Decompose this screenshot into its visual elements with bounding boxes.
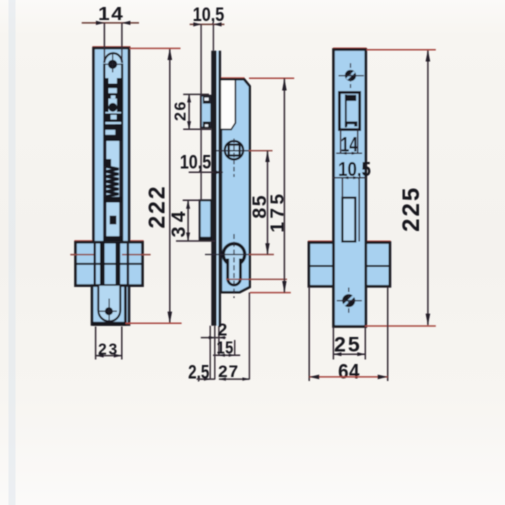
left view top screw hole <box>108 60 117 69</box>
dim 34 line <box>187 200 189 241</box>
latch mechanism C-piece bottom band <box>104 135 122 141</box>
svg-text:27: 27 <box>218 362 239 381</box>
dim 85 ext top red part <box>249 150 273 152</box>
dim 23 arrow left <box>96 354 104 358</box>
dim 14 ext right <box>121 23 123 63</box>
dim 25 ext left <box>332 327 334 360</box>
dim 10,5 ext right <box>212 24 214 50</box>
dim 27 arrow left <box>219 377 226 380</box>
case top edge over notch <box>221 79 250 86</box>
dim 15 arrow right <box>229 354 235 357</box>
dim 85 arrow top <box>265 151 269 162</box>
dim 85 ext top <box>216 150 249 152</box>
dim 10,5 long ext left <box>200 24 202 200</box>
dim 26 ext top <box>183 93 209 95</box>
channel lower band <box>104 236 122 242</box>
dim 14 ext left <box>103 23 105 63</box>
bottom screw crosshair horizontal <box>337 300 362 302</box>
latch mechanism crossbar 2 <box>104 93 122 98</box>
latch window bottom notch <box>347 124 354 128</box>
follower circle <box>225 141 243 159</box>
wing mid horizontal line <box>310 265 389 267</box>
dim 26 arrow bottom <box>187 121 191 129</box>
dim 23 arrow right <box>114 354 122 358</box>
dim 2 line <box>201 337 226 339</box>
svg-text:64: 64 <box>338 360 360 383</box>
dim 34 arrow top <box>186 200 190 209</box>
scan red fringe left block top <box>74 240 143 242</box>
dim 225 arrow top <box>426 50 431 62</box>
latch window bottom band <box>345 121 357 126</box>
cylinder bottom tangent line <box>226 278 287 280</box>
dim 14 left line <box>82 22 139 24</box>
channel rail right mid <box>119 141 121 242</box>
cylinder center line horizontal ext red <box>249 254 274 256</box>
dim 85 line <box>267 151 269 255</box>
latch mechanism C-piece top band <box>104 124 122 130</box>
top screw slot slash <box>347 72 355 79</box>
dim 26 line <box>188 94 190 129</box>
bottom ext case right <box>248 293 250 380</box>
channel rail left mid <box>104 141 106 242</box>
latch notch right edge <box>221 80 236 129</box>
dim 2,5 arrow <box>204 378 210 381</box>
left view top screw crosshair vertical <box>112 54 114 72</box>
dim 222 arrow top <box>168 48 173 60</box>
cylinder hole circle <box>223 244 244 265</box>
bottom screw crosshair horizontal <box>99 310 117 312</box>
dim 175 ext bottom <box>250 292 291 294</box>
scan red fringe left bar top <box>93 46 131 48</box>
dim 64 line <box>309 376 388 378</box>
left view top screw crosshair horizontal <box>104 63 122 65</box>
bottom screw slot slash <box>344 296 354 305</box>
deadbolt block bottom thick edge <box>200 237 212 241</box>
dim 27 line <box>219 378 250 380</box>
dim 25 arrow right <box>357 352 365 356</box>
dim 14 right ext right <box>357 130 359 154</box>
bottom thick edge <box>92 322 125 326</box>
cylinder center line vertical <box>233 234 235 298</box>
bar sides through block left <box>94 242 96 285</box>
left view inner channel right wall <box>121 64 123 243</box>
left view inner channel left wall <box>103 64 105 243</box>
scan streak left edge <box>9 0 16 505</box>
latch mechanism pivot disc <box>108 103 117 112</box>
left view faceplate bar body <box>94 48 130 325</box>
dim 222 ext top <box>130 47 181 49</box>
small latch stop left <box>104 159 111 166</box>
bottom ext faceplate left <box>209 326 211 380</box>
dim 25 arrow left <box>333 352 341 356</box>
right view faceplate bar <box>334 50 366 327</box>
dim 34 ext top <box>183 199 200 201</box>
dim 10,5 arrow left <box>193 22 201 26</box>
scan red fringe wings top <box>308 240 391 242</box>
top screw crosshair horizontal <box>339 75 364 77</box>
dim 26 ext bottom <box>183 128 211 130</box>
latch window inner left rail <box>345 95 347 128</box>
dim 85 arrow bottom <box>265 243 269 254</box>
cylinder keyhole stem <box>228 259 241 286</box>
svg-text:10,5: 10,5 <box>180 151 211 173</box>
bottom ext faceplate right <box>218 326 220 356</box>
faceplate side strip dark back <box>219 51 222 326</box>
bottom ext 15 right <box>234 340 236 355</box>
dim 225 line <box>427 50 429 326</box>
bottom screw hole <box>105 307 113 315</box>
dim 14 right ext left <box>340 130 342 154</box>
latch mechanism C-piece right connector <box>115 124 121 141</box>
latch bolt pin bottom notch <box>205 124 208 127</box>
dim 27 arrow right <box>242 377 249 380</box>
spring zigzag <box>106 167 119 197</box>
bottom screw crosshair vertical <box>348 288 350 315</box>
small slider square <box>110 216 117 225</box>
dim 26 arrow top <box>187 94 191 102</box>
faceplate side strip light core <box>217 51 219 326</box>
dim 10,5 right tick left <box>342 176 348 179</box>
dim 25 line <box>333 353 365 355</box>
right view wing plate <box>309 243 390 287</box>
dim 225 ext bottom <box>365 325 436 327</box>
dim 10,5 mid leader line <box>189 171 223 173</box>
bottom end outer <box>92 286 125 325</box>
dim 175 line <box>283 78 285 292</box>
cylinder center line horizontal <box>205 254 249 256</box>
bottom screw crosshair vertical <box>108 299 110 321</box>
svg-text:225: 225 <box>398 186 425 232</box>
left view inner channel fill <box>104 52 123 320</box>
latch mechanism yoke vertical left <box>104 78 109 112</box>
top screw head <box>345 70 356 81</box>
left view channel rounded top arc <box>104 53 122 63</box>
block mid horizontal line <box>77 263 142 265</box>
latch window frame <box>339 92 359 129</box>
latch mechanism crossbar 2 white notch <box>111 95 116 98</box>
dim 23 ext right <box>121 327 123 360</box>
dim 25 ext right <box>364 327 366 360</box>
top screw crosshair vertical <box>350 63 352 88</box>
dim 15 arrow left <box>219 354 225 357</box>
dim 222 line <box>169 48 171 323</box>
latch mechanism band notch white <box>111 115 117 120</box>
spring base band <box>104 197 122 203</box>
faceplate side strip dark front <box>211 51 216 326</box>
channel thick rail through block left <box>100 242 105 295</box>
svg-text:10,5: 10,5 <box>193 4 225 26</box>
latch window top band <box>347 95 357 101</box>
dim 64 arrow left <box>309 375 319 380</box>
bar sides through block right <box>127 242 129 285</box>
svg-text:175: 175 <box>268 190 289 232</box>
lock case body side view <box>221 79 250 292</box>
dim 10,5 right ext left <box>341 178 343 198</box>
latch bolt pin bottom <box>203 122 211 128</box>
block centerline dash right <box>122 254 151 256</box>
dim 15 line <box>213 354 240 356</box>
follower square spindle hole <box>229 145 240 156</box>
dim 175 arrow bottom <box>282 281 286 293</box>
latch bolt pin top notch <box>205 98 209 101</box>
latch mechanism yoke vertical right <box>117 78 122 112</box>
dim 222 ext bottom <box>126 322 182 324</box>
dim 10,5 right ext right <box>358 178 360 242</box>
dim 10,5 right line <box>333 177 366 179</box>
dim 2 arrow right <box>219 336 225 339</box>
dim 23 line <box>96 355 122 357</box>
dim 10,5 mid leader arrow <box>214 170 223 174</box>
scan red fringe right bar top <box>333 47 367 49</box>
deadbolt block <box>200 200 212 240</box>
dim 14 right tick left <box>341 152 347 155</box>
dim 222 arrow bottom <box>168 312 173 324</box>
channel thick rail through block right <box>116 242 121 295</box>
svg-text:2: 2 <box>218 320 228 340</box>
dim 2 arrow left <box>209 336 215 339</box>
dim 225 arrow bottom <box>426 314 431 326</box>
follower center line vertical <box>233 139 235 178</box>
scan red fringe case top <box>221 77 245 79</box>
svg-text:26: 26 <box>173 100 190 121</box>
dim 23 ext left <box>95 327 97 360</box>
latch mechanism crossbar 1 <box>104 84 122 89</box>
svg-text:14: 14 <box>98 4 124 25</box>
slot below 10,5 <box>342 198 355 242</box>
block centerline dash left <box>70 254 93 256</box>
svg-text:222: 222 <box>144 184 170 228</box>
dim 175 ext top <box>249 77 294 79</box>
dim 64 ext right <box>387 287 389 381</box>
dim 10,5 arrow right <box>214 22 222 26</box>
bottom ext faceplate mid <box>214 326 216 380</box>
bottom end inner U slot <box>98 286 120 322</box>
latch bolt block <box>201 96 211 128</box>
dim 14 right line <box>336 152 362 154</box>
dim 64 arrow right <box>378 375 388 380</box>
cylinder housing block left view <box>76 242 143 285</box>
dim 34 arrow bottom <box>186 233 190 242</box>
case bottom chamfer edge <box>221 287 250 292</box>
dim 64 ext left <box>308 287 310 381</box>
dim 14 left arrow right <box>122 21 130 25</box>
latch mechanism band with notch <box>104 113 122 122</box>
dim 175 arrow top <box>282 78 287 90</box>
dim 2,5 line <box>197 378 215 380</box>
latch notch cutout <box>221 80 235 129</box>
dim 10,5 top line <box>190 23 225 25</box>
dim 14 left arrow left <box>96 21 105 25</box>
dim 10,5 right tick right <box>353 176 359 179</box>
dim 34 ext bottom <box>176 240 215 242</box>
bottom screw head <box>342 294 355 307</box>
latch bolt pin top <box>203 97 211 104</box>
dim 225 ext top <box>367 49 436 51</box>
dim 14 right tick right <box>352 152 358 155</box>
